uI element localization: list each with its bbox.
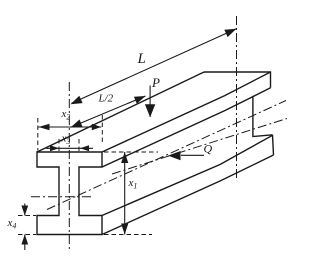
svg-text:L: L	[137, 51, 146, 67]
svg-text:P: P	[151, 75, 160, 90]
svg-text:L/2: L/2	[98, 93, 114, 105]
svg-text:Q: Q	[204, 142, 213, 156]
